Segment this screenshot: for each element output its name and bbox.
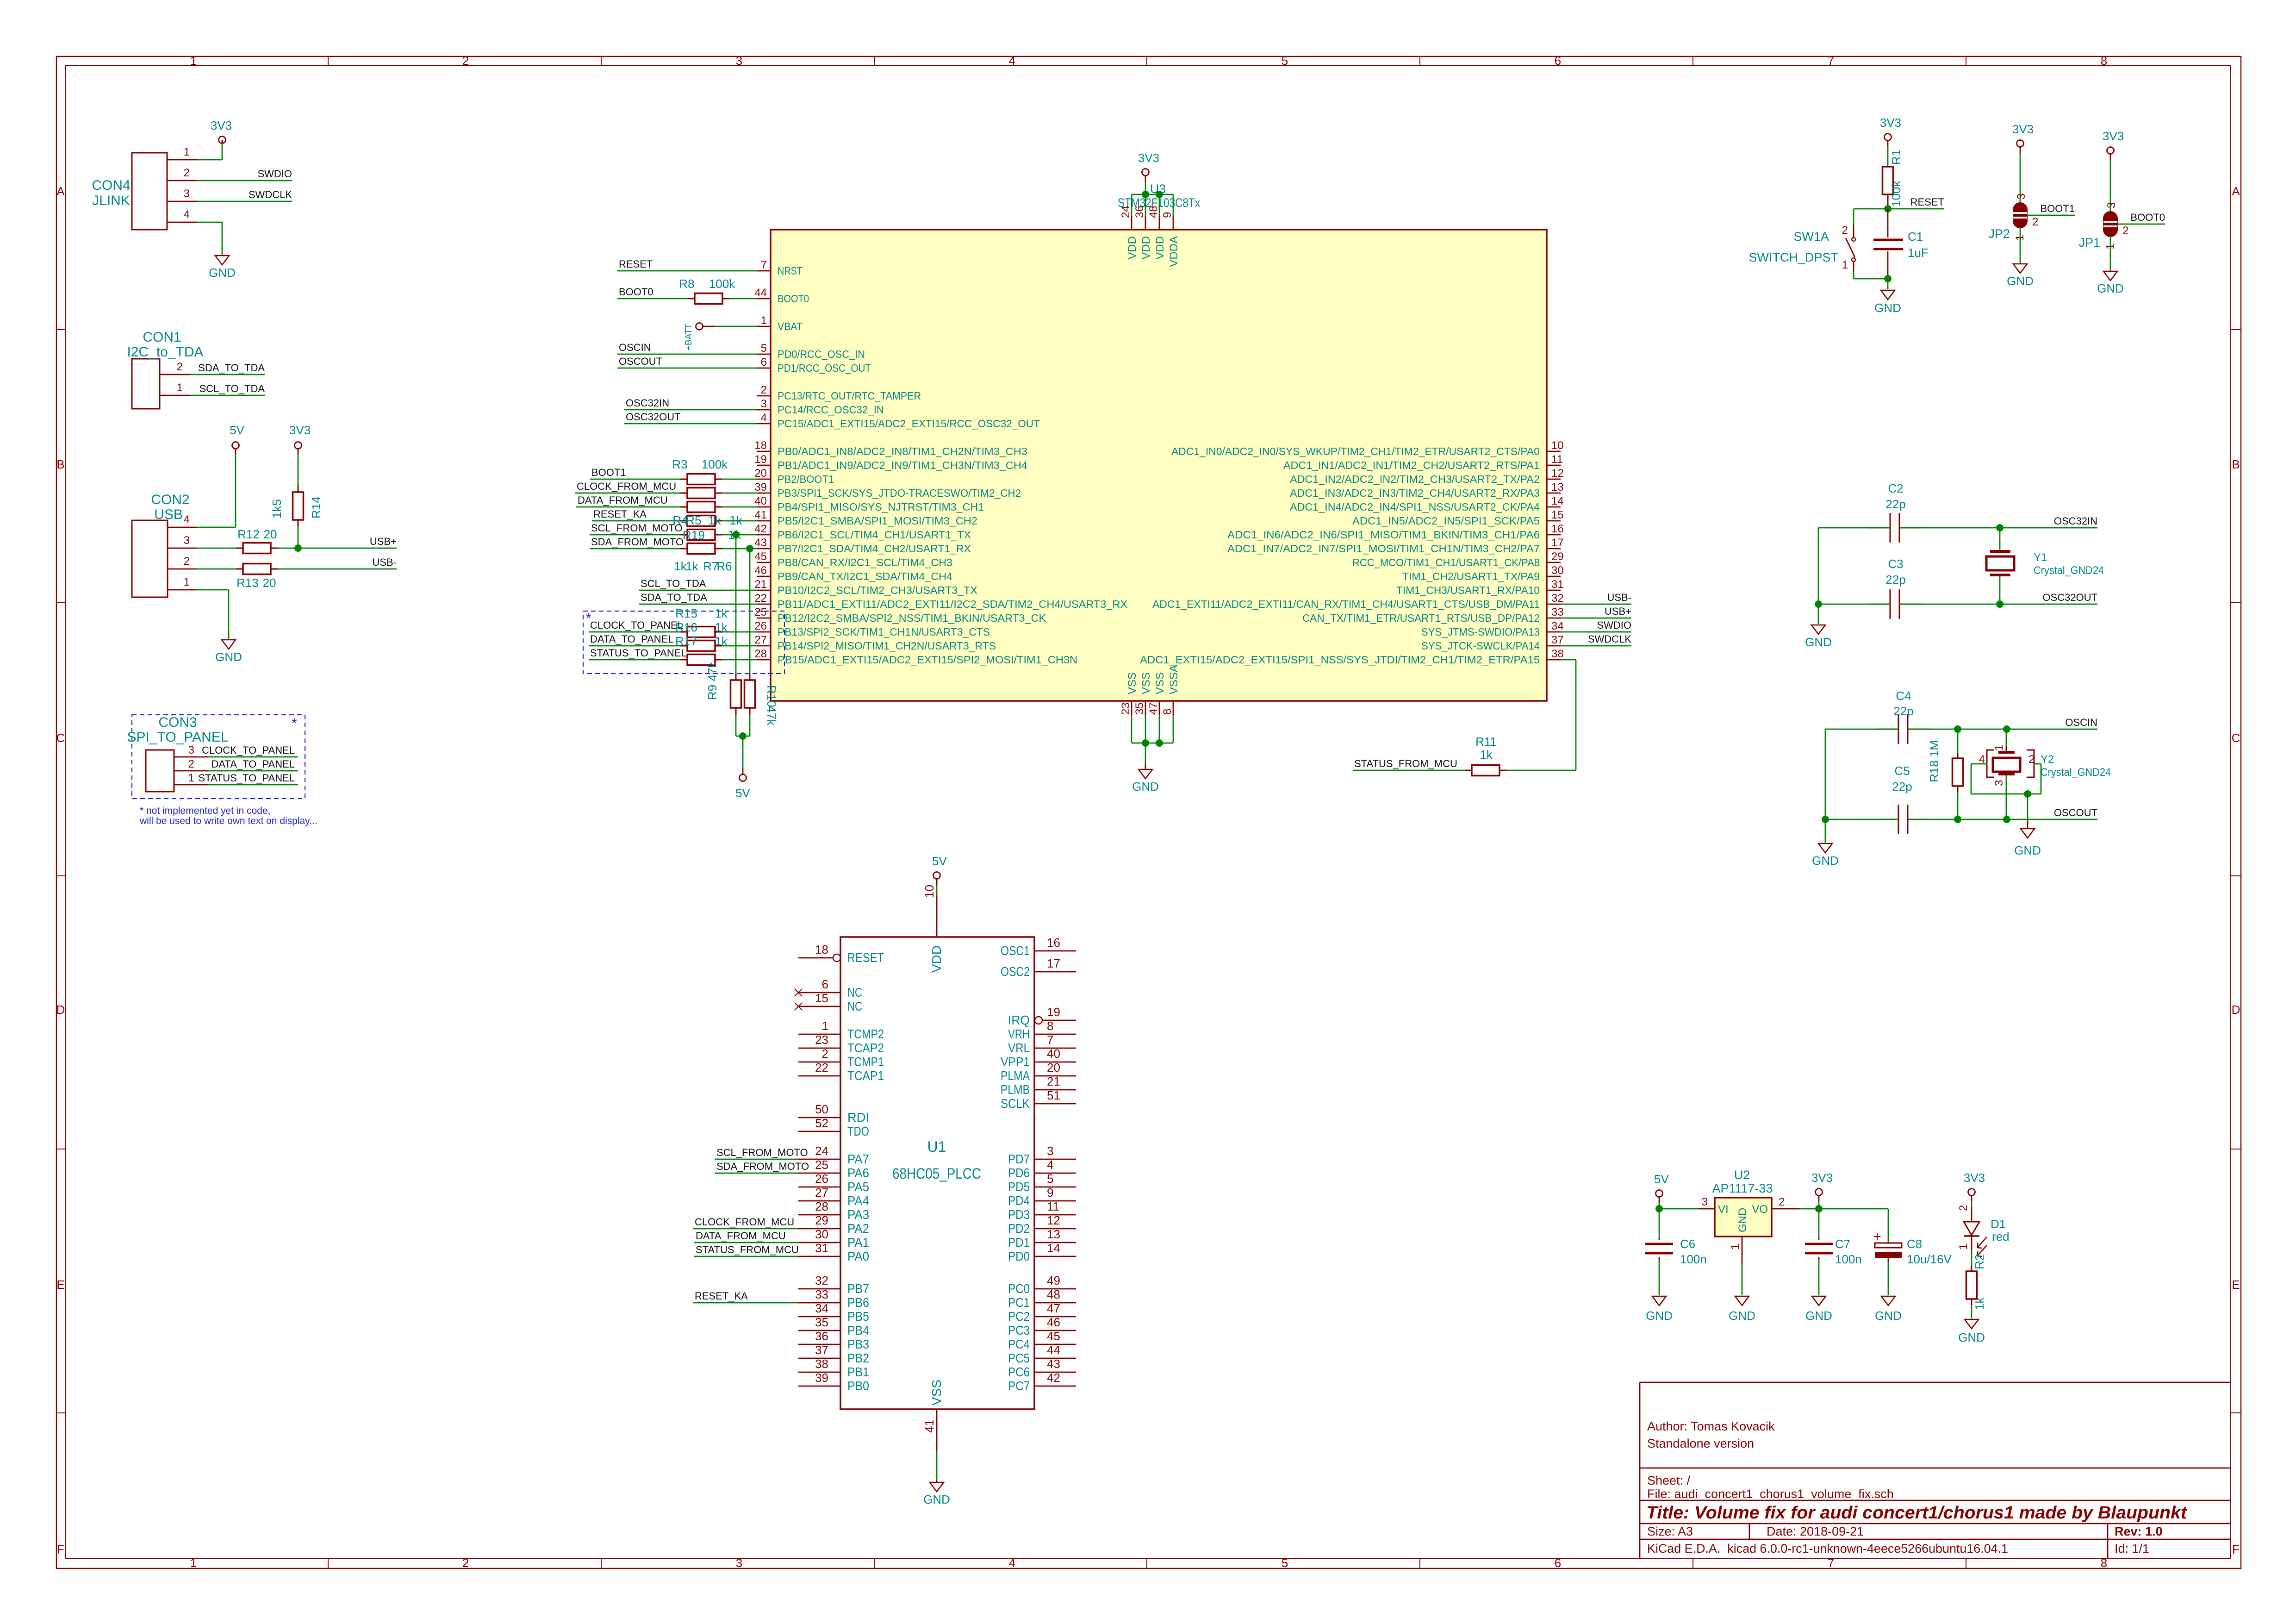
U3 bottom pin 35 VSS: [1133, 672, 1152, 715]
junctions OSCOUT: [1954, 816, 1961, 823]
power 3V3 (JP2): [2012, 122, 2034, 153]
wire PA15 to R11: [1506, 660, 1576, 770]
svg-text:32: 32: [815, 1274, 828, 1287]
svg-text:22p: 22p: [1885, 573, 1905, 587]
U1 pin 18 RESET: [798, 943, 884, 965]
resistor R18 1M: [1927, 729, 1963, 819]
svg-text:43: 43: [1047, 1357, 1060, 1371]
wire + net label DATA_FROM_MCU (U1): [694, 1230, 798, 1243]
U1 pin 14 PD0: [1008, 1241, 1076, 1263]
svg-text:SCL_FROM_MOTO: SCL_FROM_MOTO: [716, 1147, 808, 1158]
svg-text:F: F: [57, 1543, 64, 1556]
svg-text:DATA_TO_PANEL: DATA_TO_PANEL: [211, 758, 295, 770]
U1 pin 31 PA0: [798, 1241, 869, 1263]
U3 pin 4 PC15: [757, 412, 1040, 430]
svg-text:JP1: JP1: [2078, 236, 2100, 250]
svg-text:PB5: PB5: [847, 1309, 869, 1324]
svg-text:1k: 1k: [715, 606, 728, 620]
svg-text:13: 13: [1047, 1227, 1060, 1241]
svg-text:7: 7: [1828, 1556, 1834, 1570]
svg-text:1: 1: [188, 772, 194, 784]
wire + net label STATUS_FROM_MCU: [1353, 758, 1465, 770]
U3 pin 1 VBAT: [757, 314, 803, 332]
svg-text:VRH: VRH: [1008, 1027, 1030, 1041]
wire JP2 to GND: [2020, 227, 2021, 264]
svg-text:1k: 1k: [708, 513, 721, 527]
svg-text:20: 20: [263, 576, 276, 590]
U1 pin 5 PD5: [1008, 1172, 1076, 1194]
svg-text:OSC32OUT: OSC32OUT: [2042, 592, 2097, 603]
U3 pin 44 BOOT0: [754, 287, 809, 305]
dashed annotation box CON3: [132, 715, 305, 799]
svg-text:PA4: PA4: [847, 1193, 869, 1208]
wire + net label SCL_TO_TDA: [639, 578, 757, 590]
svg-text:1uF: 1uF: [1908, 246, 1929, 260]
U1 pin 38 PB1: [798, 1357, 869, 1379]
svg-text:PC14/RCC_OSC32_IN: PC14/RCC_OSC32_IN: [778, 404, 884, 416]
svg-text:VSS: VSS: [1140, 672, 1152, 694]
svg-text:GND: GND: [1132, 780, 1159, 793]
svg-text:42: 42: [1047, 1371, 1060, 1385]
svg-text:A: A: [56, 184, 65, 198]
svg-text:PC0: PC0: [1008, 1281, 1030, 1296]
power 3V3 for U3 VDD: [1138, 151, 1159, 181]
ground GND (C8): [1881, 1296, 1895, 1305]
svg-text:USB-: USB-: [1607, 592, 1631, 603]
U1 pin 47 PC2: [1008, 1301, 1076, 1324]
U3 pin 28 PB15: [754, 648, 1077, 666]
svg-text:33: 33: [1551, 606, 1564, 618]
svg-text:USB+: USB+: [370, 536, 397, 547]
svg-text:OSC2: OSC2: [1001, 964, 1030, 979]
capacitor C4 22p: [1876, 689, 1930, 744]
svg-text:R15: R15: [675, 606, 697, 620]
U3 pin 41 PB5: [754, 509, 977, 527]
svg-text:DATA_FROM_MCU: DATA_FROM_MCU: [696, 1230, 786, 1242]
wires OSC32OUT net: [1818, 528, 2097, 624]
svg-text:CON4: CON4: [92, 178, 130, 193]
svg-text:49: 49: [1047, 1274, 1060, 1287]
svg-text:19: 19: [754, 453, 767, 466]
svg-text:3V3: 3V3: [1964, 1171, 1985, 1185]
svg-text:E: E: [56, 1278, 64, 1292]
svg-text:VSS: VSS: [1154, 672, 1166, 694]
wire + net label SDA_FROM_MOTO (U1): [715, 1161, 809, 1173]
svg-text:PA3: PA3: [847, 1207, 869, 1222]
svg-text:26: 26: [754, 620, 767, 632]
svg-text:CLOCK_FROM_MCU: CLOCK_FROM_MCU: [695, 1216, 794, 1228]
svg-text:ADC1_IN1/ADC2_IN1/TIM2_CH2/USA: ADC1_IN1/ADC2_IN1/TIM2_CH2/USART2_RTS/PA…: [1283, 459, 1540, 471]
svg-text:ADC1_EXTI11/ADC2_EXTI11/CAN_RX: ADC1_EXTI11/ADC2_EXTI11/CAN_RX/TIM1_CH4/…: [1152, 598, 1540, 610]
svg-text:PC5: PC5: [1008, 1351, 1030, 1365]
svg-text:USB-: USB-: [372, 556, 397, 568]
svg-text:CON1: CON1: [143, 330, 181, 345]
svg-text:VO: VO: [1752, 1203, 1768, 1216]
resistor R11 1k: [1465, 735, 1506, 776]
svg-text:36: 36: [1133, 206, 1146, 218]
svg-text:4: 4: [1009, 54, 1015, 68]
wire pullup bottoms to 5V: [736, 715, 750, 768]
svg-text:24: 24: [1120, 206, 1132, 218]
svg-text:24: 24: [815, 1144, 828, 1158]
svg-text:2: 2: [177, 361, 183, 373]
U3 pin 20 PB2: [754, 467, 834, 485]
CON3 pin 2 DATA_TO_PANEL: [174, 758, 298, 771]
U3 pin 18 PB0: [754, 439, 1027, 457]
U3 pin 42 PB6: [754, 523, 971, 541]
ground GND (C4/C5): [1818, 843, 1832, 853]
IC U1 68HC05_PLCC body: [840, 937, 1034, 1409]
svg-text:18: 18: [754, 439, 767, 452]
svg-text:red: red: [1992, 1230, 2010, 1243]
svg-text:Size: A3: Size: A3: [1647, 1524, 1693, 1538]
svg-text:PA0: PA0: [847, 1249, 869, 1263]
resistor on RESET_KA (pin 41): [592, 508, 757, 526]
ground GND (CON4): [215, 256, 229, 265]
junction on pin43 net: [746, 545, 753, 552]
svg-text:3: 3: [188, 744, 194, 756]
svg-text:R17: R17: [675, 634, 697, 648]
U3 top pin 36 VDD: [1133, 206, 1152, 259]
U3 pin 40 PB4: [754, 495, 984, 513]
svg-text:4: 4: [184, 208, 190, 221]
U1 pin 39 PB0: [798, 1371, 869, 1393]
U1 pin 22 TCAP1: [798, 1061, 884, 1083]
svg-text:STATUS_TO_PANEL: STATUS_TO_PANEL: [590, 647, 687, 659]
svg-text:PA1: PA1: [847, 1235, 869, 1249]
U1 pin 33 PB6: [798, 1287, 869, 1310]
U1 pin 30 PA1: [798, 1227, 869, 1249]
svg-text:R3: R3: [672, 457, 687, 471]
svg-text:R13: R13: [236, 576, 259, 590]
svg-text:R18 1M: R18 1M: [1927, 740, 1941, 782]
svg-text:GND: GND: [2007, 274, 2034, 288]
svg-text:NC: NC: [847, 985, 862, 999]
svg-text:STATUS_TO_PANEL: STATUS_TO_PANEL: [198, 772, 295, 784]
svg-text:PB7: PB7: [847, 1281, 869, 1296]
svg-text:2: 2: [462, 54, 469, 68]
svg-text:27: 27: [815, 1186, 828, 1199]
svg-text:USB: USB: [154, 507, 183, 522]
svg-text:ADC1_IN6/ADC2_IN6/SPI1_MISO/TI: ADC1_IN6/ADC2_IN6/SPI1_MISO/TIM1_BKIN/TI…: [1227, 529, 1540, 541]
svg-text:PB7/I2C1_SDA/TIM4_CH2/USART1_R: PB7/I2C1_SDA/TIM4_CH2/USART1_RX: [778, 543, 971, 555]
jumper JP1: [2078, 160, 2118, 250]
ground GND (SW1A/C1): [1874, 279, 1901, 315]
svg-text:5: 5: [761, 342, 767, 355]
svg-text:23: 23: [1120, 702, 1132, 715]
svg-text:2: 2: [822, 1047, 828, 1061]
svg-text:CLOCK_FROM_MCU: CLOCK_FROM_MCU: [577, 481, 676, 492]
svg-text:40: 40: [1047, 1047, 1060, 1061]
svg-text:34: 34: [815, 1301, 828, 1315]
svg-text:1: 1: [761, 314, 767, 327]
title block: [1640, 1382, 2231, 1558]
wire + net label RESET_KA (U1): [693, 1290, 798, 1303]
svg-text:100n: 100n: [1835, 1252, 1862, 1266]
svg-text:PB15/ADC1_EXTI15/ADC2_EXTI15/S: PB15/ADC1_EXTI15/ADC2_EXTI15/SPI2_MOSI/T…: [778, 654, 1077, 666]
svg-text:D: D: [2232, 1003, 2240, 1017]
power +BATT: [684, 323, 757, 351]
svg-text:22p: 22p: [1885, 497, 1905, 511]
wire + net label USB+: [1561, 606, 1631, 618]
wire + net label SWDCLK: [1561, 633, 1631, 646]
CON2 pin 1 to GND: [168, 576, 229, 639]
wire + net label STATUS_FROM_MCU (U1): [694, 1244, 799, 1256]
svg-text:GND: GND: [1805, 1309, 1832, 1323]
svg-text:PD6: PD6: [1008, 1166, 1030, 1180]
U1 pin 15 NC: [795, 991, 862, 1013]
svg-text:DATA_TO_PANEL: DATA_TO_PANEL: [590, 633, 674, 645]
svg-text:OSC32IN: OSC32IN: [626, 397, 669, 409]
svg-text:42: 42: [754, 523, 767, 535]
svg-text:PD0/RCC_OSC_IN: PD0/RCC_OSC_IN: [778, 348, 865, 360]
svg-text:44: 44: [1047, 1343, 1060, 1357]
svg-text:PB8/CAN_RX/I2C1_SCL/TIM4_CH3: PB8/CAN_RX/I2C1_SCL/TIM4_CH3: [778, 556, 952, 568]
U3 pin 31 PA10: [1396, 578, 1564, 596]
U3 pin 16 PA6: [1227, 523, 1564, 541]
resistor R16 on CLOCK_TO_PANEL (pin 26): [589, 619, 757, 637]
svg-text:PC13/RTC_OUT/RTC_TAMPER: PC13/RTC_OUT/RTC_TAMPER: [778, 390, 921, 402]
svg-text:1k5: 1k5: [270, 499, 284, 518]
svg-text:PB1/ADC1_IN9/ADC2_IN9/TIM1_CH3: PB1/ADC1_IN9/ADC2_IN9/TIM1_CH3N/TIM3_CH4: [778, 459, 1027, 471]
svg-text:1: 1: [184, 146, 190, 158]
U3 pin 38 PA15: [1140, 648, 1564, 666]
U1 pin 40 VPP1: [1001, 1047, 1076, 1069]
U1 pin 6 NC: [795, 977, 862, 999]
U3 pin 45 PB8: [754, 550, 952, 568]
svg-text:A: A: [2232, 184, 2240, 198]
U3 pin 3 PC14: [757, 398, 884, 416]
svg-text:TCAP2: TCAP2: [847, 1041, 884, 1055]
junction USB+/R14: [294, 544, 302, 552]
svg-text:34: 34: [1551, 620, 1564, 632]
svg-text:BOOT0: BOOT0: [778, 293, 809, 305]
svg-text:ADC1_IN5/ADC2_IN5/SPI1_SCK/PA5: ADC1_IN5/ADC2_IN5/SPI1_SCK/PA5: [1352, 515, 1540, 527]
svg-text:50: 50: [815, 1102, 828, 1116]
svg-text:4: 4: [1047, 1158, 1053, 1172]
svg-text:5V: 5V: [230, 423, 244, 437]
svg-text:37: 37: [1551, 634, 1564, 646]
svg-text:4: 4: [761, 412, 767, 424]
wires OSCIN net: [1825, 717, 2097, 729]
svg-text:SWITCH_DPST: SWITCH_DPST: [1748, 250, 1838, 264]
U3 pin 5 PD0: [757, 342, 865, 360]
svg-text:3V3: 3V3: [1138, 151, 1159, 165]
switch SW1A SWITCH_DPST: [1748, 209, 1888, 279]
svg-text:6: 6: [1555, 54, 1561, 68]
ground GND (JP2): [2013, 264, 2027, 273]
svg-text:20: 20: [754, 467, 767, 480]
U1 pin 45 PC4: [1008, 1329, 1076, 1351]
svg-text:PD3: PD3: [1008, 1207, 1030, 1222]
svg-text:VPP1: VPP1: [1001, 1055, 1030, 1069]
power 5V (U1): [932, 854, 947, 895]
svg-text:RESET: RESET: [1910, 196, 1944, 208]
svg-text:PB6: PB6: [847, 1295, 869, 1310]
svg-text:40: 40: [754, 495, 767, 507]
wire + net label BOOT1: [2027, 203, 2075, 228]
svg-text:R10: R10: [765, 685, 778, 707]
svg-text:C: C: [56, 731, 65, 745]
wires OSCOUT net: [1825, 729, 2097, 843]
svg-text:SCL_TO_TDA: SCL_TO_TDA: [199, 383, 265, 394]
svg-text:22: 22: [754, 592, 767, 605]
U1 pin 19 IRQ: [1008, 1005, 1076, 1027]
svg-text:6: 6: [822, 977, 828, 991]
svg-text:R11: R11: [1475, 735, 1497, 749]
svg-text:PB6/I2C1_SCL/TIM4_CH1/USART1_T: PB6/I2C1_SCL/TIM4_CH1/USART1_TX: [778, 529, 971, 541]
svg-text:PB11/ADC1_EXTI11/ADC2_EXTI11/I: PB11/ADC1_EXTI11/ADC2_EXTI11/I2C2_SDA/TI…: [778, 598, 1127, 610]
CON4 pin 2 SWDIO: [167, 167, 292, 181]
svg-text:RESET: RESET: [847, 950, 884, 965]
resistor R1 100k: [1883, 146, 1904, 209]
junction VDD bus: [1142, 191, 1149, 198]
svg-text:9: 9: [1047, 1186, 1053, 1199]
svg-text:OSCOUT: OSCOUT: [2054, 807, 2097, 818]
U3 pin 27 PB14: [754, 634, 996, 652]
junction VO/3V3: [1815, 1205, 1823, 1212]
resistor R2 1k: [1966, 1250, 1987, 1318]
svg-text:R19: R19: [683, 528, 705, 542]
U3 pin 33 PA12: [1302, 606, 1564, 624]
svg-text:PD1/RCC_OSC_OUT: PD1/RCC_OSC_OUT: [778, 362, 871, 374]
svg-text:3: 3: [184, 534, 190, 547]
svg-text:10: 10: [1551, 439, 1564, 452]
U1 pin 51 SCLK: [1001, 1088, 1076, 1111]
svg-text:Crystal_GND24: Crystal_GND24: [2041, 766, 2111, 779]
svg-text:GND: GND: [209, 266, 236, 280]
svg-text:5: 5: [1282, 54, 1288, 68]
wire JP1 to GND: [2110, 236, 2111, 271]
connector CON2 USB: [132, 492, 190, 597]
U3 pin 6 PD1: [757, 356, 871, 374]
U1 pin 17 OSC2: [1001, 956, 1076, 979]
resistor R17 on DATA_TO_PANEL (pin 27): [589, 633, 757, 651]
svg-text:2: 2: [2032, 216, 2038, 228]
svg-text:NC: NC: [847, 999, 862, 1013]
connector CON4 JLINK: [92, 153, 167, 230]
wire VO to 3V3/C7/C8: [1799, 1209, 1888, 1243]
svg-text:GND: GND: [2097, 281, 2124, 295]
svg-text:JLINK: JLINK: [92, 193, 130, 208]
svg-text:47: 47: [1147, 702, 1160, 715]
svg-text:PC7: PC7: [1008, 1379, 1030, 1393]
capacitor C8 10u/16V polarized: [1873, 1229, 1952, 1295]
svg-text:RESET: RESET: [619, 258, 653, 270]
svg-text:PB10/I2C2_SCL/TIM2_CH3/USART3_: PB10/I2C2_SCL/TIM2_CH3/USART3_TX: [778, 584, 977, 596]
svg-text:38: 38: [1551, 648, 1564, 660]
svg-text:Standalone version: Standalone version: [1647, 1437, 1754, 1450]
svg-text:11: 11: [1551, 453, 1563, 466]
CON4 pin 4 to GND: [167, 208, 222, 255]
svg-text:25: 25: [815, 1158, 828, 1172]
svg-text:18: 18: [815, 943, 828, 956]
svg-text:31: 31: [1551, 578, 1564, 591]
capacitor C1 1uF: [1873, 209, 1929, 279]
svg-text:* not implemented yet in code,: * not implemented yet in code,: [140, 806, 271, 816]
svg-text:C4: C4: [1896, 689, 1911, 703]
svg-text:47: 47: [1047, 1301, 1060, 1315]
junction OSC32OUT: [1996, 600, 2004, 608]
svg-text:PLMB: PLMB: [1001, 1082, 1030, 1097]
svg-text:R9 47k: R9 47k: [705, 662, 719, 700]
U1 pin 12 PD2: [1008, 1213, 1076, 1236]
svg-text:1: 1: [177, 381, 183, 394]
svg-text:8: 8: [1161, 709, 1174, 715]
svg-text:ADC1_IN7/ADC2_IN7/SPI1_MOSI/TI: ADC1_IN7/ADC2_IN7/SPI1_MOSI/TIM1_CH1N/TI…: [1227, 543, 1540, 555]
wire 5V to VI: [1659, 1208, 1699, 1210]
svg-text:CLOCK_TO_PANEL: CLOCK_TO_PANEL: [590, 619, 683, 631]
ground GND (U1): [923, 1480, 950, 1506]
U3 top pin 24 VDD: [1120, 206, 1139, 259]
U3 pin 37 PA14: [1421, 634, 1564, 652]
U3 pin 11 PA1: [1283, 453, 1563, 471]
capacitor C3 22p: [1868, 557, 1922, 619]
svg-text:Date: 2018-09-21: Date: 2018-09-21: [1767, 1524, 1864, 1538]
resistor R8 100k on BOOT0: [617, 277, 757, 304]
svg-text:1: 1: [822, 1019, 828, 1033]
U3 pin 25 PB12: [754, 606, 1046, 624]
wire pin43 junction down to R10: [749, 549, 751, 674]
junctions OSCIN: [1954, 725, 1961, 733]
svg-text:BOOT1: BOOT1: [591, 467, 626, 478]
svg-text:C: C: [2232, 731, 2240, 745]
svg-text:GND: GND: [1729, 1309, 1755, 1323]
svg-text:Crystal_GND24: Crystal_GND24: [2034, 564, 2104, 577]
svg-text:I2C_to_TDA: I2C_to_TDA: [127, 344, 203, 360]
svg-text:E: E: [2232, 1278, 2240, 1292]
svg-text:B: B: [56, 457, 64, 471]
svg-text:SDA_FROM_MOTO: SDA_FROM_MOTO: [716, 1161, 809, 1172]
wire 3V3 to VDD bus: [1132, 181, 1173, 216]
svg-text:25: 25: [754, 606, 767, 618]
svg-text:ADC1_EXTI15/ADC2_EXTI15/SPI1_N: ADC1_EXTI15/ADC2_EXTI15/SPI1_NSS/SYS_JTD…: [1140, 654, 1540, 666]
svg-text:C6: C6: [1680, 1237, 1695, 1251]
svg-text:IRQ: IRQ: [1008, 1013, 1030, 1027]
svg-text:PB4/SPI1_MISO/SYS_NJTRST/TIM3_: PB4/SPI1_MISO/SYS_NJTRST/TIM3_CH1: [778, 501, 984, 513]
power 3V3 (CON4): [211, 119, 232, 144]
junction 5V/C6: [1655, 1205, 1663, 1212]
crystal Y1 Crystal_GND24: [1986, 528, 2104, 604]
svg-text:3: 3: [184, 187, 190, 200]
svg-text:3: 3: [1993, 780, 2005, 786]
svg-text:SCLK: SCLK: [1001, 1096, 1030, 1111]
svg-text:3V3: 3V3: [289, 423, 311, 437]
svg-text:5: 5: [1047, 1172, 1053, 1186]
svg-text:Sheet: /: Sheet: /: [1647, 1474, 1691, 1487]
U1 pin 21 PLMB: [1001, 1074, 1076, 1097]
svg-text:1k: 1k: [715, 634, 728, 648]
junction pullup net: [739, 732, 747, 740]
power 3V3 (JP1): [2103, 129, 2124, 160]
svg-text:17: 17: [1551, 537, 1564, 549]
svg-text:28: 28: [754, 648, 767, 660]
svg-text:37: 37: [815, 1343, 828, 1357]
U1 pin 2 TCMP1: [798, 1047, 884, 1069]
svg-text:SWDCLK: SWDCLK: [249, 189, 292, 200]
U3 pin 29 PA8: [1352, 550, 1564, 568]
U1 pin 10 VDD: [922, 885, 944, 973]
svg-text:RESET_KA: RESET_KA: [593, 508, 647, 520]
U1 pin 36 PB3: [798, 1329, 869, 1351]
junction C1 bottom: [1884, 275, 1892, 282]
svg-text:TCMP2: TCMP2: [847, 1027, 884, 1041]
U1 pin 41 VSS: [922, 1380, 944, 1451]
U3 pin 39 PB3: [754, 481, 1021, 499]
svg-text:ADC1_IN4/ADC2_IN4/SPI1_NSS/USA: ADC1_IN4/ADC2_IN4/SPI1_NSS/USART2_CK/PA4: [1290, 501, 1540, 513]
svg-text:45: 45: [1047, 1329, 1060, 1343]
svg-text:3: 3: [761, 398, 767, 410]
